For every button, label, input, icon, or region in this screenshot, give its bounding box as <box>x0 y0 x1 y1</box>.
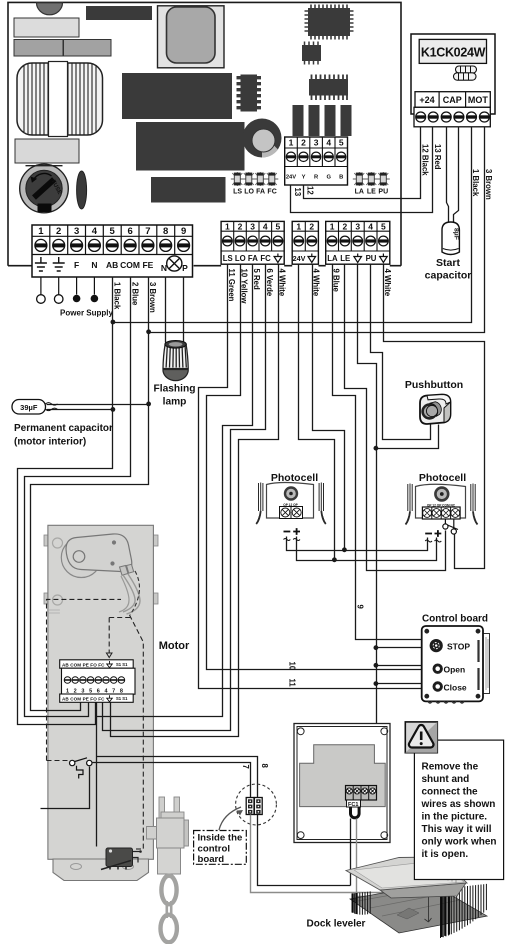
main terminal strip 1-9 <box>32 225 193 318</box>
gray wires to dock leveler <box>251 815 413 893</box>
wire lane B to Close top <box>377 683 422 685</box>
wire LA2 to right photocell NO contact <box>345 265 446 571</box>
svg-text:7: 7 <box>241 765 250 769</box>
svg-text:PU: PU <box>366 254 377 263</box>
svg-text:6 Verde: 6 Verde <box>265 269 274 297</box>
wire LA5 4 White to right photocell NC contact <box>384 265 485 569</box>
base floor <box>350 884 487 933</box>
inside the control board label <box>194 807 247 865</box>
decorative semicircle top edge <box>37 3 63 15</box>
left hatch block <box>352 891 370 914</box>
svg-text:1: 1 <box>330 222 335 232</box>
ground symbols t1 t2 <box>35 257 65 271</box>
wire limit contact down and left <box>41 767 90 809</box>
relay module top center <box>158 6 225 68</box>
pulley assembly <box>61 534 140 615</box>
svg-text:2: 2 <box>238 222 243 232</box>
svg-text:4: 4 <box>368 222 373 232</box>
terminal header +24 CAP MOT <box>415 92 490 108</box>
svg-text:Pushbutton: Pushbutton <box>405 379 463 391</box>
svg-text:Dock leveler: Dock leveler <box>307 919 366 930</box>
svg-text:4: 4 <box>92 226 98 237</box>
svg-text:S1 S1: S1 S1 <box>116 696 128 701</box>
wire minus bus between photocells <box>287 537 428 551</box>
Close button <box>433 681 443 691</box>
capacitor bars x4 <box>293 105 304 136</box>
svg-text:COM: COM <box>120 260 140 270</box>
trolley and chain <box>147 797 189 942</box>
wire MOT 1 Black <box>113 127 472 323</box>
gray wire FC1 to dock <box>357 819 429 897</box>
svg-text:LO: LO <box>244 189 254 196</box>
vertical DIP chip <box>237 75 262 112</box>
receiver block 24V Y R G B <box>285 137 348 185</box>
svg-text:Power Supply: Power Supply <box>60 309 113 318</box>
wire t8 to flashing lamp <box>165 277 167 343</box>
microswitch <box>101 848 142 870</box>
svg-text:MOT: MOT <box>468 95 488 105</box>
wire lane B to STOP bottom <box>377 647 422 649</box>
wire permanent capacitor top lead to brown <box>47 404 149 406</box>
svg-text:1: 1 <box>225 222 230 232</box>
DIP16 chip <box>309 75 348 101</box>
connector inside control board <box>236 784 277 825</box>
svg-text:Inside the: Inside the <box>198 833 243 844</box>
svg-text:5: 5 <box>110 226 116 237</box>
svg-text:Photocell: Photocell <box>419 472 466 484</box>
svg-text:Flashing: Flashing <box>154 384 196 395</box>
wire 7 connector to limit contact <box>93 763 251 799</box>
svg-text:control: control <box>198 844 231 855</box>
SOIC8 chip <box>302 42 321 65</box>
permanent capacitor 39uF <box>12 400 113 448</box>
svg-text:connect the: connect the <box>422 787 479 798</box>
svg-text:10: 10 <box>287 662 296 671</box>
dashed inspection box <box>47 599 144 849</box>
svg-text:G: G <box>326 175 331 181</box>
svg-text:2: 2 <box>56 226 61 237</box>
24V strip <box>292 221 318 264</box>
STOP button <box>430 639 443 652</box>
dock leveler <box>346 857 487 938</box>
svg-text:FA: FA <box>248 254 258 263</box>
svg-text:7: 7 <box>145 226 150 237</box>
stubs and circles below t1-t4 <box>41 277 95 295</box>
light rect above fuse <box>15 139 79 163</box>
wire 24V-1 to photocell plus bus <box>299 265 335 561</box>
svg-text:wires as shown: wires as shown <box>421 799 496 810</box>
wire t9 to flashing lamp <box>183 277 185 343</box>
svg-text:39µF: 39µF <box>20 403 38 412</box>
svg-text:LA: LA <box>327 254 338 263</box>
dark rect 3 <box>151 177 226 203</box>
svg-text:FC: FC <box>267 189 276 196</box>
svg-text:in the picture.: in the picture. <box>422 812 488 823</box>
svg-text:AB COM PE FO FC: AB COM PE FO FC <box>62 697 105 702</box>
fuse <box>20 164 69 213</box>
control board <box>422 614 490 704</box>
svg-text:AB COM PE FO FC: AB COM PE FO FC <box>62 662 105 667</box>
screw row <box>414 107 490 127</box>
wire t5 AB 1 Black to motor block <box>18 277 113 725</box>
motor terminal block <box>60 660 135 703</box>
motor body <box>44 525 158 880</box>
svg-text:2 Blue: 2 Blue <box>130 282 139 306</box>
svg-text:it is open.: it is open. <box>422 849 469 860</box>
svg-text:13 Red: 13 Red <box>433 144 442 170</box>
LA LE PU strip <box>326 221 390 264</box>
svg-text:B: B <box>339 175 343 181</box>
svg-text:4: 4 <box>263 222 268 232</box>
svg-text:8µF: 8µF <box>453 228 460 240</box>
svg-text:1 Black: 1 Black <box>113 282 122 310</box>
svg-text:3: 3 <box>355 222 360 232</box>
svg-text:1: 1 <box>296 222 301 232</box>
wire CAP a <box>447 127 449 223</box>
pushbutton <box>405 379 463 424</box>
buzzer <box>243 119 282 158</box>
svg-text:8: 8 <box>260 764 269 769</box>
svg-text:AB: AB <box>106 260 118 270</box>
wire pushbutton right to lane B <box>377 425 439 449</box>
wire LS3 5 Red to motor block <box>97 265 253 717</box>
svg-text:24V: 24V <box>293 254 306 263</box>
right hatch block <box>441 884 487 938</box>
svg-text:PU: PU <box>378 189 388 196</box>
svg-text:10 Yellow: 10 Yellow <box>240 269 249 305</box>
svg-text:1: 1 <box>38 226 44 237</box>
svg-text:2: 2 <box>309 222 314 232</box>
svg-text:Open: Open <box>444 665 466 675</box>
svg-text:FE: FE <box>142 260 153 270</box>
NO NC contact circles <box>444 519 446 525</box>
svg-text:F: F <box>74 260 79 270</box>
svg-text:lamp: lamp <box>163 397 187 408</box>
QFP chip <box>305 5 354 40</box>
label box K1CK024W <box>419 39 486 63</box>
svg-text:shunt and: shunt and <box>422 774 470 785</box>
big dark rect 2 <box>136 122 245 171</box>
svg-text:LO: LO <box>235 254 246 263</box>
svg-text:CAP: CAP <box>443 95 462 105</box>
svg-text:3: 3 <box>74 226 79 237</box>
wire MOT 3 Brown <box>149 127 485 333</box>
svg-text:LS: LS <box>223 254 233 263</box>
limit switch contacts <box>70 758 93 779</box>
left photocell <box>256 472 326 541</box>
warning icon and note <box>405 722 503 880</box>
svg-text:3: 3 <box>250 222 255 232</box>
svg-text:K1CK024W: K1CK024W <box>421 46 486 60</box>
light gray rect <box>14 18 79 37</box>
svg-text:4 White: 4 White <box>311 269 320 297</box>
wire microswitch feed <box>96 703 98 847</box>
svg-text:11: 11 <box>287 679 296 688</box>
svg-text:24V: 24V <box>286 175 296 181</box>
Open button <box>433 664 443 674</box>
wire LS5 4 White to motor block <box>111 265 279 737</box>
transformer <box>17 62 103 137</box>
wire CAP b <box>454 127 459 223</box>
svg-text:8: 8 <box>163 226 168 237</box>
wire t7 FE 3 Brown to motor block <box>31 277 149 711</box>
relay dark rect top <box>86 6 152 20</box>
wire plus bus between photocells <box>297 537 437 561</box>
svg-text:9 Blue: 9 Blue <box>332 269 341 293</box>
svg-text:+24: +24 <box>419 95 434 105</box>
LS LO FA FC strip <box>221 221 284 264</box>
wire LS1 11 Green to control board Close <box>199 265 422 689</box>
svg-text:capacitor: capacitor <box>425 270 472 282</box>
svg-text:5: 5 <box>339 138 344 148</box>
svg-text:N: N <box>91 260 97 270</box>
svg-text:FC1: FC1 <box>348 802 358 808</box>
svg-text:4 White: 4 White <box>278 269 287 297</box>
svg-text:3: 3 <box>314 138 319 148</box>
rotated wire labels <box>113 144 494 769</box>
svg-text:This way it will: This way it will <box>422 824 492 835</box>
wire 13 receiver 24V to K1CK +24b <box>291 127 433 213</box>
black ellipse <box>77 171 87 209</box>
wire LA1 9 Blue to control board STOP <box>333 265 422 640</box>
svg-text:12: 12 <box>306 186 315 195</box>
PCB board outline <box>8 2 401 265</box>
wire LA3 common lane B <box>358 265 377 724</box>
svg-text:LS: LS <box>233 189 242 196</box>
svg-text:5: 5 <box>381 222 386 232</box>
svg-text:4: 4 <box>326 138 331 148</box>
svg-text:STOP: STOP <box>447 642 470 652</box>
wire 24V-2 4 White to photocell minus bus <box>313 265 345 551</box>
svg-text:LE: LE <box>367 189 376 196</box>
svg-text:5 Red: 5 Red <box>252 269 261 290</box>
svg-text:6: 6 <box>127 226 132 237</box>
svg-text:board: board <box>198 854 225 865</box>
support strut <box>401 871 423 897</box>
svg-text:1: 1 <box>289 138 294 148</box>
deck plate <box>380 883 466 898</box>
svg-text:Control board: Control board <box>422 614 488 625</box>
wire FC1 to wire8 overlay <box>350 819 352 886</box>
LED group LS LO FA FC <box>231 172 278 196</box>
svg-text:13: 13 <box>293 188 302 197</box>
svg-text:LA: LA <box>355 189 364 196</box>
svg-text:FA: FA <box>256 189 265 196</box>
svg-text:9: 9 <box>356 605 365 610</box>
svg-text:Remove the: Remove the <box>422 762 479 773</box>
svg-text:3 Brown: 3 Brown <box>148 282 157 313</box>
svg-text:Motor: Motor <box>159 640 190 652</box>
svg-text:12 Black: 12 Black <box>420 144 429 176</box>
svg-text:LE: LE <box>340 254 350 263</box>
svg-text:11 Green: 11 Green <box>227 269 236 302</box>
wire LS2 10 Yellow to control board Open <box>207 265 422 670</box>
svg-text:P: P <box>182 263 188 273</box>
big dark rect 1 <box>122 73 232 119</box>
svg-text:2: 2 <box>301 138 306 148</box>
wire LA4 PU to pushbutton left <box>371 265 431 440</box>
junction dots <box>111 320 379 686</box>
svg-text:Y: Y <box>302 175 306 181</box>
wire lane B to Open top <box>377 665 422 667</box>
svg-text:Start: Start <box>436 257 460 269</box>
lamp symbol <box>167 256 182 271</box>
FC1 box <box>294 724 390 843</box>
svg-text:4 White: 4 White <box>383 269 392 297</box>
svg-text:5: 5 <box>276 222 281 232</box>
svg-text:S1 S1: S1 S1 <box>116 662 128 667</box>
start capacitor 8uF <box>425 222 472 282</box>
svg-text:2: 2 <box>343 222 348 232</box>
svg-text:only work when: only work when <box>422 837 497 848</box>
wire LS4 6 Verde to motor block <box>103 265 266 731</box>
wire t6 COM 2 Blue to motor block <box>25 277 131 717</box>
module K1CK024W outline <box>411 34 495 114</box>
right photocell <box>406 472 478 542</box>
svg-text:FC: FC <box>260 254 271 263</box>
svg-text:(motor interior): (motor interior) <box>14 437 86 448</box>
svg-text:Permanent capacitor: Permanent capacitor <box>14 423 113 434</box>
jumper pills <box>454 66 477 80</box>
wire 8 connector column to FC1 <box>97 757 351 886</box>
svg-text:1 Black: 1 Black <box>471 169 480 197</box>
wire permanent capacitor bottom lead to black <box>47 409 113 411</box>
gray rect pair <box>14 40 63 57</box>
svg-text:Close: Close <box>444 683 467 693</box>
wire 12 receiver Y to K1CK +24a <box>304 127 421 199</box>
svg-text:3 Brown: 3 Brown <box>484 169 493 200</box>
LED group LA LE PU <box>353 172 390 196</box>
flashing lamp <box>154 341 196 408</box>
svg-text:9: 9 <box>181 226 186 237</box>
